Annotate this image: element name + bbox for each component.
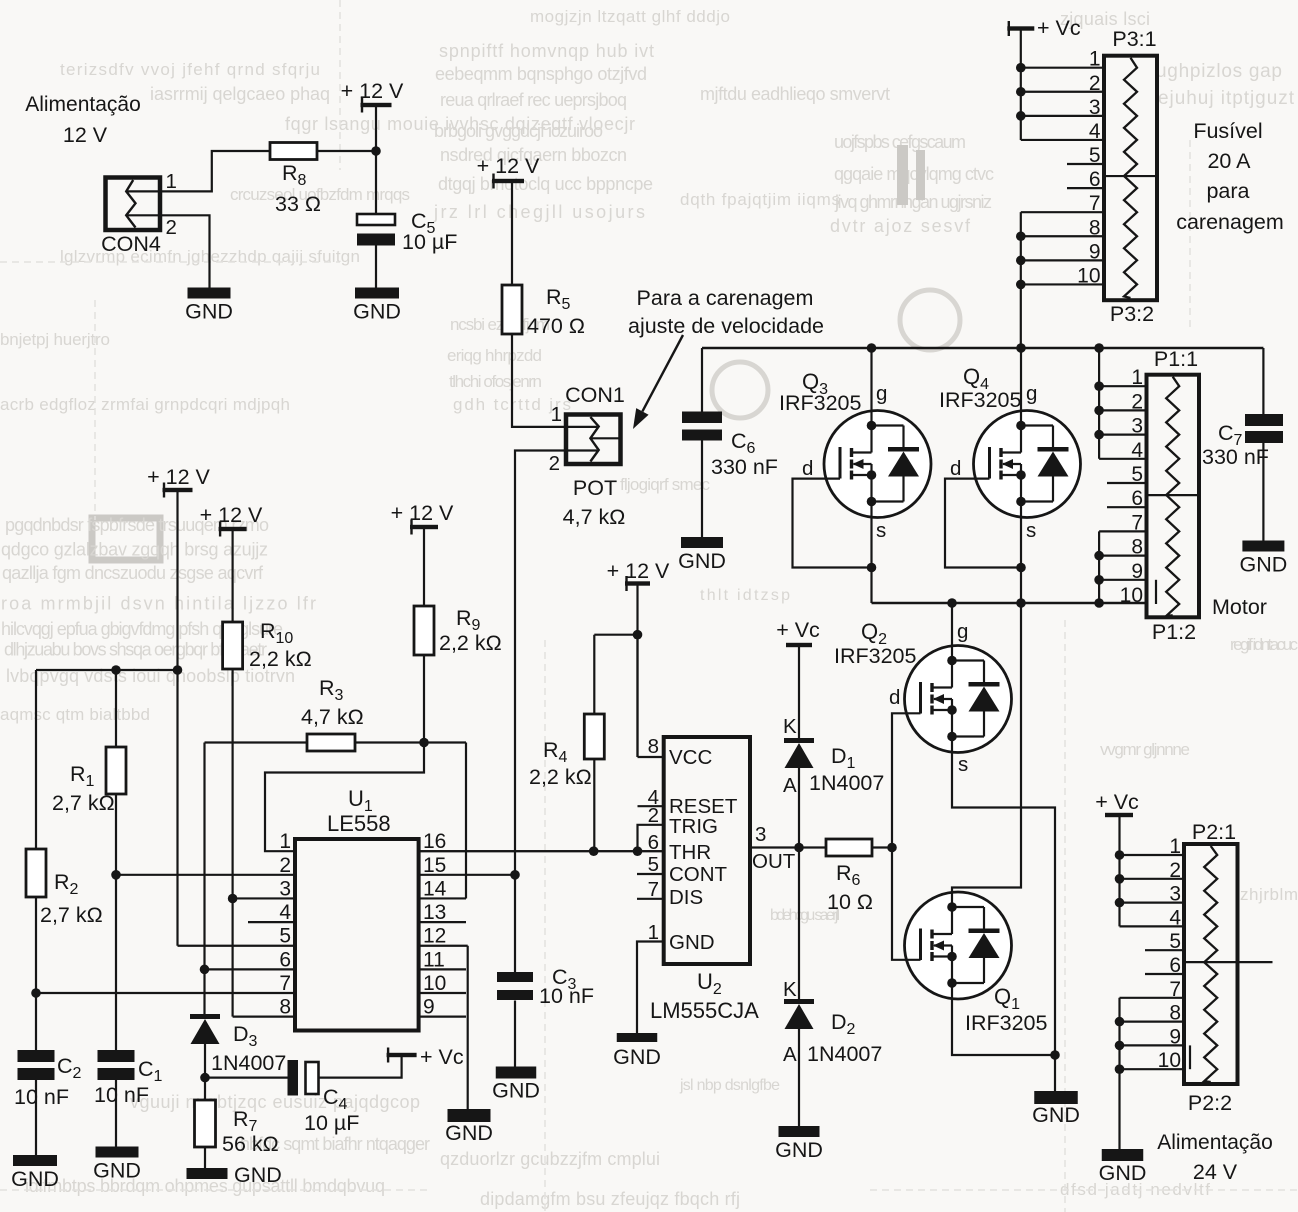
svg-text:IRF3205: IRF3205 (965, 1011, 1048, 1035)
svg-text:roa mrmbjil dsvn hintila ljzzo: roa mrmbjil dsvn hintila ljzzo lfr (1, 594, 316, 614)
svg-text:Para a carenagem: Para a carenagem (637, 286, 814, 310)
svg-text:15: 15 (423, 854, 446, 877)
svg-text:5: 5 (1131, 463, 1143, 486)
svg-text:GND: GND (1099, 1161, 1147, 1185)
svg-text:GND: GND (11, 1167, 59, 1191)
svg-text:para: para (1206, 179, 1249, 203)
svg-text:6: 6 (1131, 487, 1143, 510)
svg-text:1: 1 (279, 830, 291, 853)
svg-text:10 µF: 10 µF (304, 1111, 359, 1135)
svg-text:14: 14 (423, 877, 447, 900)
svg-text:LE558: LE558 (327, 811, 391, 836)
svg-text:3: 3 (279, 877, 291, 900)
svg-text:g: g (957, 620, 968, 643)
svg-text:P1:1: P1:1 (1154, 347, 1198, 371)
svg-text:10: 10 (1120, 584, 1143, 607)
svg-text:mjftdu eadhlieqo smvervt: mjftdu eadhlieqo smvervt (700, 84, 890, 104)
svg-text:GND: GND (1032, 1103, 1080, 1127)
svg-text:eriqg hhrpzdd: eriqg hhrpzdd (447, 346, 542, 365)
svg-text:GND: GND (93, 1159, 141, 1183)
svg-text:zhjrblm: zhjrblm (1240, 885, 1298, 904)
svg-text:GND: GND (445, 1121, 493, 1145)
svg-text:GND: GND (1240, 553, 1288, 577)
svg-text:ejuhuj itptjguzt: ejuhuj itptjguzt (1158, 88, 1295, 109)
svg-text:5: 5 (648, 853, 659, 876)
svg-text:5: 5 (1089, 144, 1101, 167)
svg-text:P3:1: P3:1 (1112, 27, 1156, 51)
svg-text:6: 6 (1089, 168, 1101, 191)
svg-text:aqmsc qtm bialtbbd: aqmsc qtm bialtbbd (0, 705, 150, 724)
svg-text:12: 12 (423, 925, 446, 948)
svg-text:10: 10 (423, 972, 446, 995)
svg-text:7: 7 (1169, 978, 1181, 1001)
svg-text:56 kΩ: 56 kΩ (222, 1132, 279, 1156)
svg-text:2: 2 (1131, 390, 1143, 413)
svg-text:CONT: CONT (669, 863, 728, 886)
svg-text:1N4007: 1N4007 (211, 1051, 286, 1075)
svg-text:9: 9 (1131, 560, 1143, 583)
svg-text:+ Vc: + Vc (1095, 790, 1139, 814)
svg-text:P1:2: P1:2 (1152, 620, 1196, 644)
svg-text:1: 1 (551, 403, 562, 426)
svg-text:GND: GND (353, 300, 401, 324)
svg-text:8: 8 (1169, 1002, 1181, 1025)
svg-text:10: 10 (1077, 264, 1100, 287)
svg-text:qazllja fgm dncszuodu zsgse aq: qazllja fgm dncszuodu zsgse aqcvrf (2, 563, 264, 583)
svg-text:carenagem: carenagem (1176, 210, 1284, 234)
svg-text:4: 4 (1169, 906, 1181, 929)
svg-text:6: 6 (648, 831, 659, 854)
svg-text:iasrrmij qelgcaeo phaq: iasrrmij qelgcaeo phaq (150, 84, 330, 104)
svg-text:DIS: DIS (669, 886, 703, 909)
svg-text:2: 2 (166, 216, 177, 239)
svg-text:qgqaie mqcvlqmg ctvc: qgqaie mqcvlqmg ctvc (834, 164, 994, 184)
svg-text:K: K (783, 978, 797, 1001)
svg-text:10 nF: 10 nF (14, 1085, 69, 1109)
svg-text:P3:2: P3:2 (1110, 302, 1154, 326)
svg-text:dqth fpajqtjim iiqms: dqth fpajqtjim iiqms (680, 190, 840, 209)
svg-text:regif idntacuc: regif idntacuc (1230, 635, 1298, 654)
svg-text:7: 7 (648, 878, 659, 901)
svg-text:7: 7 (279, 972, 291, 995)
svg-text:brbgoii gvggdcjf iczuiroo: brbgoii gvggdcjf iczuiroo (434, 121, 603, 141)
svg-text:acrb edgfloz zrmfai grnpdcqri: acrb edgfloz zrmfai grnpdcqri mdjpqh (0, 395, 290, 414)
svg-text:4: 4 (1131, 439, 1143, 462)
svg-text:s: s (876, 519, 886, 542)
svg-text:THR: THR (669, 841, 711, 864)
svg-text:330 nF: 330 nF (711, 455, 778, 479)
svg-text:4,7 kΩ: 4,7 kΩ (301, 705, 364, 729)
svg-text:P2:1: P2:1 (1192, 820, 1236, 844)
svg-text:GND: GND (492, 1079, 540, 1103)
svg-text:8: 8 (279, 996, 291, 1019)
svg-text:OUT: OUT (752, 850, 796, 873)
svg-text:+ 12 V: + 12 V (477, 154, 540, 178)
svg-text:9: 9 (1169, 1025, 1181, 1048)
svg-text:IRF3205: IRF3205 (939, 388, 1022, 412)
svg-text:5: 5 (1169, 930, 1181, 953)
svg-text:2: 2 (1089, 72, 1101, 95)
svg-text:tlhchi ofosjenrn: tlhchi ofosjenrn (449, 372, 542, 391)
svg-text:5: 5 (279, 925, 291, 948)
svg-text:Alimentação: Alimentação (1157, 1131, 1273, 1154)
svg-text:11: 11 (423, 948, 445, 971)
svg-text:2,7 kΩ: 2,7 kΩ (40, 903, 103, 927)
svg-text:TRIG: TRIG (669, 815, 718, 838)
svg-text:10: 10 (1158, 1049, 1181, 1072)
svg-text:2,7 kΩ: 2,7 kΩ (52, 791, 115, 815)
svg-text:bnjetpj huerjtro: bnjetpj huerjtro (0, 330, 110, 349)
svg-text:2: 2 (1169, 859, 1181, 882)
svg-text:1: 1 (1169, 835, 1181, 858)
svg-text:GND: GND (678, 549, 726, 573)
svg-text:2: 2 (279, 854, 291, 877)
svg-text:GND: GND (185, 300, 233, 324)
svg-text:330 nF: 330 nF (1202, 445, 1269, 469)
svg-text:jivq ghmrnngan ugjrsniz: jivq ghmrnngan ugjrsniz (834, 192, 992, 212)
svg-text:2,2 kΩ: 2,2 kΩ (249, 647, 312, 671)
svg-text:1N4007: 1N4007 (807, 1042, 882, 1066)
svg-text:dipdamgfm bsu zfeujqz fbqch rf: dipdamgfm bsu zfeujqz fbqch rfj (480, 1189, 740, 1209)
svg-text:7: 7 (1089, 192, 1101, 215)
svg-text:6: 6 (1169, 954, 1181, 977)
svg-text:+ Vc: + Vc (776, 618, 820, 642)
svg-text:vguuji nugbtjzqc eusuiz pajqdg: vguuji nugbtjzqc eusuiz pajqdgcop (130, 1092, 420, 1112)
svg-text:A: A (783, 1043, 797, 1066)
svg-text:GND: GND (775, 1138, 823, 1162)
svg-text:10 Ω: 10 Ω (827, 890, 873, 914)
svg-text:vvgmr gljnnne: vvgmr gljnnne (1100, 740, 1190, 759)
svg-text:P2:2: P2:2 (1188, 1091, 1232, 1115)
svg-text:20 A: 20 A (1207, 149, 1251, 173)
svg-text:2,2 kΩ: 2,2 kΩ (439, 631, 502, 655)
svg-text:Alimentação: Alimentação (25, 93, 141, 116)
svg-text:GND: GND (234, 1163, 282, 1187)
svg-text:8: 8 (1089, 216, 1101, 239)
svg-text:10 nF: 10 nF (539, 984, 594, 1008)
svg-text:GND: GND (669, 931, 715, 954)
svg-text:Motor: Motor (1212, 595, 1267, 619)
svg-text:13: 13 (423, 901, 446, 924)
svg-text:2: 2 (648, 804, 659, 827)
svg-text:d: d (802, 457, 813, 480)
svg-text:GND: GND (613, 1045, 661, 1069)
svg-text:3: 3 (755, 823, 766, 846)
svg-text:4: 4 (279, 901, 291, 924)
svg-text:s: s (1026, 519, 1036, 542)
svg-text:ughpizlos gap: ughpizlos gap (1156, 61, 1282, 82)
svg-text:+ 12 V: + 12 V (607, 559, 670, 583)
svg-text:8: 8 (648, 735, 659, 758)
svg-text:6: 6 (279, 948, 291, 971)
svg-text:+ 12 V: + 12 V (200, 503, 263, 527)
svg-text:LM555CJA: LM555CJA (650, 998, 759, 1023)
svg-text:10 nF: 10 nF (94, 1083, 149, 1107)
svg-text:eebeqmm bqnsphgo otzjfvd: eebeqmm bqnsphgo otzjfvd (435, 64, 647, 84)
svg-text:IRF3205: IRF3205 (779, 391, 862, 415)
svg-text:3: 3 (1131, 415, 1143, 438)
svg-text:7: 7 (1131, 511, 1143, 534)
svg-text:s: s (958, 753, 968, 776)
svg-text:terizsdfv vvoj jfehf qrnd sfqr: terizsdfv vvoj jfehf qrnd sfqrju (60, 60, 320, 79)
svg-text:reua qrlraef rec ueprsjboq: reua qrlraef rec ueprsjboq (440, 90, 627, 110)
svg-text:qzduorlzr gcubzzjfm cmplui: qzduorlzr gcubzzjfm cmplui (440, 1149, 660, 1169)
svg-text:12 V: 12 V (63, 123, 108, 147)
svg-text:9: 9 (1089, 240, 1101, 263)
svg-text:A: A (783, 774, 797, 797)
svg-text:2,2 kΩ: 2,2 kΩ (529, 765, 592, 789)
svg-text:CON4: CON4 (101, 232, 161, 256)
svg-text:K: K (783, 715, 797, 738)
svg-text:dtgqj bmotoclq ucc bppncpe: dtgqj bmotoclq ucc bppncpe (438, 174, 653, 194)
svg-text:d: d (950, 457, 961, 480)
svg-text:4: 4 (1089, 120, 1101, 143)
svg-text:jsl nbp dsnlgfbe: jsl nbp dsnlgfbe (679, 1077, 780, 1094)
svg-text:3: 3 (1089, 96, 1101, 119)
svg-text:1: 1 (1131, 366, 1143, 389)
svg-text:thlt idtzsp: thlt idtzsp (700, 587, 790, 604)
svg-text:16: 16 (423, 830, 446, 853)
svg-text:+ 12 V: + 12 V (341, 79, 404, 103)
svg-text:VCC: VCC (669, 746, 712, 769)
svg-text:Fusível: Fusível (1193, 119, 1262, 143)
svg-text:d: d (889, 686, 900, 709)
svg-text:mogjzjn ltzqatt glhf dddjo: mogjzjn ltzqatt glhf dddjo (530, 7, 730, 26)
svg-text:1: 1 (1089, 48, 1101, 71)
svg-text:spnpiftf homvnqp hub ivt: spnpiftf homvnqp hub ivt (439, 41, 654, 61)
svg-text:3: 3 (1169, 883, 1181, 906)
svg-text:4,7 kΩ: 4,7 kΩ (563, 505, 626, 529)
svg-text:10 µF: 10 µF (402, 230, 457, 254)
svg-text:+ Vc: + Vc (1037, 16, 1081, 40)
svg-text:+ 12 V: + 12 V (147, 465, 210, 489)
svg-text:9: 9 (423, 996, 435, 1019)
svg-text:8: 8 (1131, 536, 1143, 559)
svg-text:+ Vc: + Vc (420, 1045, 464, 1069)
svg-text:33 Ω: 33 Ω (275, 192, 321, 216)
svg-text:POT: POT (573, 476, 617, 500)
svg-text:470 Ω: 470 Ω (527, 314, 585, 338)
svg-text:CON1: CON1 (565, 383, 625, 407)
svg-text:g: g (876, 382, 887, 405)
svg-text:1: 1 (166, 170, 177, 193)
svg-text:g: g (1026, 382, 1037, 405)
svg-text:1: 1 (648, 921, 659, 944)
svg-text:ajuste de velocidade: ajuste de velocidade (628, 314, 824, 338)
svg-text:24 V: 24 V (1193, 1160, 1238, 1184)
svg-text:+ 12 V: + 12 V (391, 501, 454, 525)
svg-text:2: 2 (549, 452, 560, 475)
svg-text:IRF3205: IRF3205 (834, 644, 917, 668)
svg-text:qdgco gzlalzbav zgqqh brsg azu: qdgco gzlalzbav zgqqh brsg azujjz (1, 540, 268, 560)
svg-text:fljogiqrf smec: fljogiqrf smec (620, 475, 711, 494)
svg-text:1N4007: 1N4007 (809, 771, 884, 795)
